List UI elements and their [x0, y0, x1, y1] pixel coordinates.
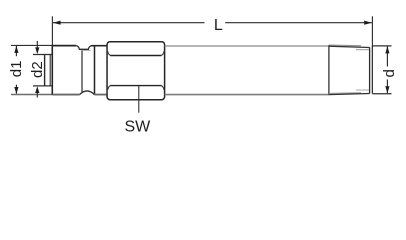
- svg-text:d1: d1: [8, 61, 25, 78]
- svg-text:SW: SW: [125, 118, 152, 135]
- svg-text:d2: d2: [29, 61, 46, 78]
- svg-text:L: L: [214, 17, 223, 34]
- svg-text:d: d: [381, 69, 398, 77]
